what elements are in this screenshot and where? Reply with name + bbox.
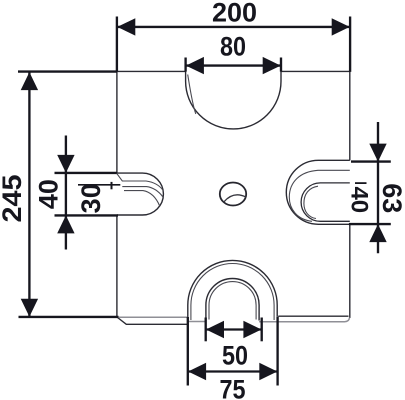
svg-text:75: 75 bbox=[220, 375, 246, 400]
svg-text:30: 30 bbox=[76, 183, 106, 213]
svg-text:40: 40 bbox=[34, 179, 64, 209]
svg-text:80: 80 bbox=[220, 31, 246, 61]
svg-text:40: 40 bbox=[346, 186, 373, 213]
svg-text:245: 245 bbox=[0, 175, 27, 223]
svg-text:50: 50 bbox=[222, 340, 248, 370]
svg-text:63: 63 bbox=[377, 183, 405, 213]
svg-text:200: 200 bbox=[212, 0, 257, 28]
